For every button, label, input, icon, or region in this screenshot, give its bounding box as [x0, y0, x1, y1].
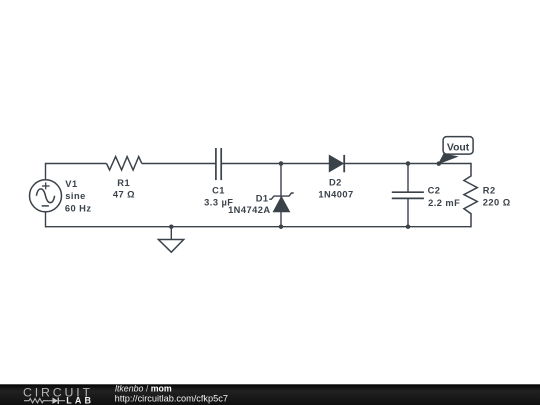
label R1 47 ohm [113, 178, 135, 200]
wire C2 branch top [407, 164, 409, 193]
label R2 220 ohm [483, 185, 511, 207]
wire bottom rail [46, 226, 472, 228]
node dot C2 top [406, 161, 411, 166]
wire D1 branch [280, 164, 282, 227]
node dot D1 top [279, 161, 284, 166]
capacitor C1 [216, 148, 221, 180]
resistor R1 [107, 157, 142, 170]
svg-text:ltkenbo / mom: ltkenbo / mom [115, 384, 172, 394]
label C1 3.3 uF [204, 186, 233, 208]
svg-text:60 Hz: 60 Hz [65, 203, 92, 213]
svg-text:Vout: Vout [447, 142, 470, 153]
svg-text:220 Ω: 220 Ω [483, 198, 511, 208]
svg-text:2.2 mF: 2.2 mF [428, 198, 460, 208]
logo resistor squiggle [24, 399, 48, 403]
wire top from R1 to C1 [142, 163, 216, 165]
svg-text:sine: sine [65, 191, 85, 201]
wire left branch below V1 [45, 212, 47, 228]
wire left branch above V1 [45, 163, 47, 180]
svg-text:C2: C2 [428, 186, 441, 196]
label D2 1N4007 [318, 178, 353, 200]
wire top from V1 to R1 [46, 163, 107, 165]
node dot Vout tap [437, 161, 442, 166]
svg-text:C1: C1 [212, 186, 225, 196]
wire top from C1 to D2 [221, 163, 329, 165]
svg-text:1N4007: 1N4007 [318, 189, 353, 199]
svg-text:1N4742A: 1N4742A [228, 205, 270, 215]
svg-text:D2: D2 [329, 178, 342, 188]
logo diode [48, 398, 65, 404]
flag Vout callout [439, 137, 473, 164]
resistor R2 [464, 163, 477, 228]
label D1 1N4742A [228, 193, 270, 215]
wire top from D2 to R2 corner [344, 163, 471, 165]
voltage source V1 [30, 180, 62, 212]
node dot D1 bottom [279, 224, 284, 229]
svg-text:47 Ω: 47 Ω [113, 190, 135, 200]
svg-text:V1: V1 [65, 179, 77, 189]
capacitor C2 [392, 192, 424, 198]
svg-text:http://circuitlab.com/cfkp5c7: http://circuitlab.com/cfkp5c7 [115, 393, 228, 403]
label V1 sine 60 Hz [65, 179, 92, 213]
zener diode D1 [269, 193, 294, 212]
svg-text:D1: D1 [256, 193, 269, 203]
svg-text:R2: R2 [483, 185, 496, 195]
diode D2 [329, 155, 344, 172]
node dot C2 bottom [406, 224, 411, 229]
wire C2 branch bottom [407, 198, 409, 226]
svg-text:LAB: LAB [66, 395, 94, 405]
ground [158, 227, 183, 253]
svg-text:R1: R1 [117, 178, 130, 188]
footer bar [0, 384, 540, 405]
node dot ground junction [169, 224, 174, 229]
label C2 2.2 mF [428, 186, 461, 208]
